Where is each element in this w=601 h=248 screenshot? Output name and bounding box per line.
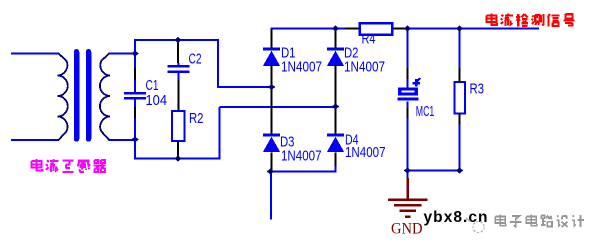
svg-text:ybx8.cn: ybx8.cn [424, 209, 489, 226]
svg-text:1N4007: 1N4007 [345, 144, 386, 161]
svg-text:104: 104 [146, 92, 168, 109]
svg-text:GND: GND [391, 220, 423, 237]
svg-text:C2: C2 [189, 51, 202, 68]
svg-text:R3: R3 [470, 80, 485, 97]
svg-text:1N4007: 1N4007 [281, 58, 322, 75]
svg-text:MC1: MC1 [416, 103, 435, 120]
svg-text:1N4007: 1N4007 [344, 58, 385, 75]
svg-text:R2: R2 [189, 110, 204, 127]
svg-text:R4: R4 [362, 31, 376, 48]
svg-text:1N4007: 1N4007 [281, 147, 322, 164]
